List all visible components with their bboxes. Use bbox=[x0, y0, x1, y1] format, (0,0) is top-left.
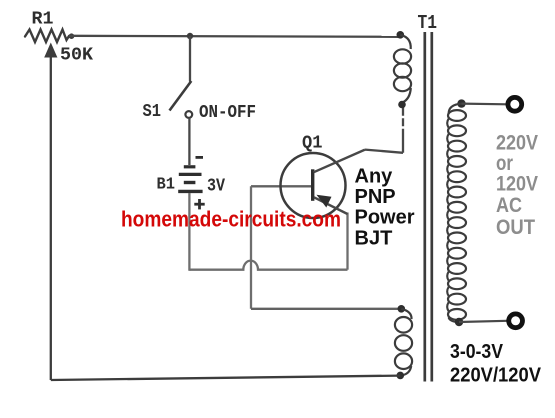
svg-text:Q1: Q1 bbox=[302, 134, 323, 154]
switch S1 bbox=[170, 81, 193, 118]
svg-text:220V/120V: 220V/120V bbox=[450, 365, 542, 387]
svg-text:B1: B1 bbox=[157, 176, 176, 195]
battery plus sign bbox=[194, 199, 204, 209]
wire battery to bottom rail bbox=[188, 193, 190, 271]
label 3-0-3V 220V/120V bbox=[450, 341, 542, 387]
primary winding upper half bbox=[394, 31, 411, 108]
svg-text:OUT: OUT bbox=[496, 216, 535, 239]
wire secondary top to terminal bbox=[462, 102, 508, 105]
secondary winding bbox=[447, 99, 466, 326]
output terminal bottom bbox=[509, 314, 523, 328]
wire feedback to lower winding bbox=[251, 308, 401, 310]
wire switch to battery bbox=[188, 118, 190, 165]
wire collector to winding bbox=[365, 150, 403, 153]
resistor R1 (rheostat zigzag) bbox=[25, 30, 74, 43]
svg-text:3-0-3V: 3-0-3V bbox=[450, 341, 504, 363]
svg-text:homemade-circuits.com: homemade-circuits.com bbox=[121, 207, 341, 232]
transformer core bbox=[425, 32, 432, 382]
output terminal top bbox=[508, 97, 522, 111]
node junction at switch branch bbox=[187, 33, 193, 39]
svg-text:Power: Power bbox=[355, 207, 415, 229]
wire emitter rail with hop over base wire bbox=[189, 261, 347, 270]
wire base feedback vertical bbox=[250, 186, 252, 308]
wire top rail bbox=[69, 36, 400, 37]
wire bottom rail bbox=[51, 376, 401, 380]
wire base lead bbox=[251, 185, 311, 187]
wire secondary bottom to terminal bbox=[459, 321, 507, 322]
wire switch drop bbox=[189, 36, 191, 82]
wire emitter vertical bbox=[346, 213, 348, 270]
svg-text:Any: Any bbox=[355, 166, 394, 188]
svg-text:R1: R1 bbox=[32, 10, 54, 30]
wire left rail (wiper down to bottom rail) bbox=[50, 56, 52, 380]
svg-text:3V: 3V bbox=[207, 177, 225, 197]
svg-text:S1: S1 bbox=[143, 102, 162, 122]
label 220V or 120V AC OUT bbox=[496, 131, 538, 239]
label Any PNP Power BJT bbox=[355, 166, 415, 250]
battery B1 bbox=[178, 167, 202, 192]
primary winding lower half bbox=[395, 305, 412, 379]
svg-text:220V: 220V bbox=[496, 131, 538, 154]
R1 wiper arrow bbox=[44, 43, 57, 58]
svg-text:T1: T1 bbox=[418, 12, 438, 34]
svg-text:AC: AC bbox=[496, 194, 522, 217]
battery minus sign bbox=[196, 156, 204, 159]
svg-text:50K: 50K bbox=[60, 46, 93, 66]
svg-text:BJT: BJT bbox=[355, 228, 393, 250]
svg-text:PNP: PNP bbox=[355, 186, 396, 208]
transistor Q1 bbox=[281, 150, 366, 218]
svg-text:ON-OFF: ON-OFF bbox=[199, 103, 256, 123]
svg-text:120V: 120V bbox=[496, 172, 538, 195]
